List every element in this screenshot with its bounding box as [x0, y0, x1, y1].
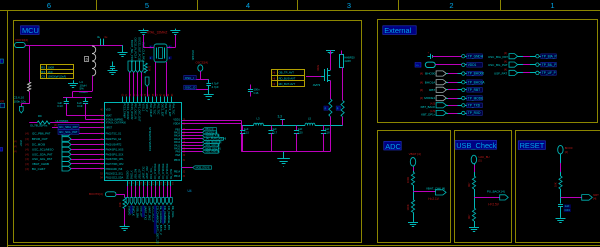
- svg-text:[4]: [4]: [420, 96, 423, 100]
- wire junction to label: [413, 191, 436, 193]
- wire junction to label: [561, 197, 582, 199]
- capacitor C15: [242, 126, 244, 131]
- svg-text:PB11/I2C2_SDA: PB11/I2C2_SDA: [106, 177, 124, 180]
- svg-text:USF_PAT: USF_PAT: [494, 72, 507, 76]
- wire bottom pin 6: [147, 186, 149, 198]
- svg-text:SWCLK: SWCLK: [130, 170, 133, 179]
- svg-text:10M: 10M: [148, 66, 151, 71]
- wire right pin row 7: [182, 148, 203, 150]
- pin bottom 8 stub: [155, 181, 157, 186]
- resistor R21: [411, 172, 414, 185]
- left edge clip mark b: [0, 148, 3, 152]
- net label boxes row2: [58, 129, 79, 134]
- hier pin down VDDIO: [145, 77, 149, 86]
- net name SWCLK: [130, 205, 133, 213]
- svg-text:3: 3: [347, 1, 351, 10]
- svg-text:10K: 10K: [118, 202, 122, 207]
- sheet frame top border: [0, 10, 600, 12]
- svg-text:[4]: [4]: [565, 150, 568, 154]
- svg-text:3u: 3u: [104, 35, 108, 39]
- svg-text:VDD33[4]: VDD33[4]: [15, 38, 28, 42]
- svg-text:U4: U4: [188, 189, 192, 193]
- ic U4 STM32 body: [105, 103, 182, 181]
- svg-text:BPUR_OUT: BPUR_OUT: [32, 137, 48, 141]
- inductor L3: [254, 123, 264, 125]
- svg-text:RBT: RBT: [429, 88, 435, 92]
- svg-text:PA1_TSC: PA1_TSC: [153, 104, 156, 115]
- svg-text:100K: 100K: [406, 177, 410, 183]
- svg-text:C15: C15: [244, 130, 249, 134]
- wire UAK down: [474, 164, 476, 176]
- hier pin down BOOT_SEL_PIN02: [128, 61, 132, 73]
- sheet name RESET: [518, 141, 545, 150]
- sheet name MCU: [21, 26, 40, 35]
- svg-text:STM32F072CBT6: STM32F072CBT6: [148, 127, 152, 152]
- wire right pin row 3: [182, 135, 203, 137]
- pin bottom 11 stub: [167, 181, 169, 186]
- capacitor C17: [271, 126, 273, 131]
- svg-text:VBAT [4]: VBAT [4]: [409, 152, 421, 156]
- power flag Q1: [326, 50, 335, 52]
- net label OSC_O: [184, 85, 196, 89]
- pin top 11 stub: [160, 97, 162, 103]
- test point TP_MODE: [462, 96, 465, 99]
- left edge clip mark a: [0, 59, 3, 63]
- svg-text:USB_DM: USB_DM: [136, 206, 140, 218]
- svg-text:H=2.1V: H=2.1V: [428, 197, 440, 201]
- svg-text:TP_BIA_P: TP_BIA_P: [542, 54, 557, 58]
- svg-text:[4]: [4]: [14, 151, 17, 153]
- ground crystal right: [175, 29, 177, 31]
- pin bottom 1 stub: [127, 181, 129, 186]
- svg-text:USC_SDA_PAT: USC_SDA_PAT: [32, 152, 53, 156]
- svg-text:PA3_TSC: PA3_TSC: [164, 104, 167, 115]
- hier pin down CD_CHARGE_BAT1_DET_22: [154, 198, 157, 205]
- svg-text:OSC32[4]: OSC32[4]: [196, 61, 209, 65]
- svg-text:USC_ADL_PAT: USC_ADL_PAT: [32, 157, 52, 161]
- wire R14 to filter: [330, 117, 332, 126]
- svg-text:4K7: 4K7: [467, 214, 471, 219]
- wire VDD1: [435, 64, 461, 66]
- svg-text:XTALN_OUT/PA00: XTALN_OUT/PA00: [106, 122, 127, 125]
- wire TP_BHO1A: [446, 82, 461, 84]
- test point TP_GNDH: [462, 55, 465, 58]
- ferrite PD: [64, 126, 72, 130]
- capacitor C18: [323, 126, 325, 131]
- svg-text:USC_BIA_PAT: USC_BIA_PAT: [488, 55, 508, 59]
- hier label NRT: [582, 195, 593, 201]
- wire C19 down: [85, 103, 87, 119]
- test point VDD1: [462, 63, 465, 66]
- wire bottom pin 9: [159, 186, 161, 198]
- ground crystal left: [143, 29, 145, 31]
- svg-text:TP_BIL_P: TP_BIL_P: [542, 63, 557, 67]
- svg-text:I2C1_SCL_: I2C1_SCL_: [150, 166, 153, 180]
- crystal Y1: [154, 44, 167, 62]
- svg-text:PC13_TAMP: PC13_TAMP: [122, 104, 125, 119]
- wire TP_RBT: [446, 89, 461, 91]
- svg-text:C17: C17: [272, 130, 277, 134]
- hier pin down DE_CHARGE_BAT0_2: [158, 198, 161, 205]
- wire R26 to ground: [474, 221, 476, 227]
- wire right pin row 2: [182, 132, 203, 134]
- pin top 10 stub: [156, 97, 158, 103]
- wire R15 to filter: [342, 117, 344, 126]
- svg-text:5: 5: [145, 1, 149, 10]
- svg-text:VBAT: VBAT: [106, 115, 113, 118]
- svg-text:PA8: PA8: [175, 154, 180, 157]
- hier pin down CD_CHARGE_BT1: [162, 198, 165, 205]
- hier pin down OSC32_OUT_PC15: [136, 61, 140, 73]
- wire OSC_IN: [155, 62, 157, 97]
- wire C24 to ground: [560, 207, 562, 218]
- svg-text:[4]: [4]: [272, 71, 275, 75]
- pin bottom 10 stub: [163, 181, 165, 186]
- svg-text:CD_CHARGE: CD_CHARGE: [166, 163, 169, 179]
- sheet frame bottom border: [8, 245, 600, 247]
- capacitor C11: [208, 80, 210, 83]
- svg-text:USC_BIL_PAT: USC_BIL_PAT: [488, 63, 508, 67]
- wire bottom pin 3: [135, 186, 137, 198]
- net name CD_CHARGE_BT1: [162, 205, 165, 223]
- svg-text:4HP2: 4HP2: [344, 59, 351, 63]
- svg-text:PA05/SPI1_SCK: PA05/SPI1_SCK: [106, 153, 124, 156]
- hier label GB1_GN3 [4]: [203, 144, 219, 147]
- wire TP_BHO00: [446, 73, 461, 75]
- svg-text:[4]: [4]: [26, 167, 29, 171]
- svg-text:VDD_2: VDD_2: [145, 104, 148, 113]
- wire TP_UF_P: [518, 72, 536, 74]
- svg-text:CD_CHARGE_BT1: CD_CHARGE_BT1: [163, 206, 167, 231]
- wire TP_MODE: [446, 98, 461, 100]
- net name CD_CHARGE_BAT1_DET_22: [154, 205, 157, 233]
- svg-text:PA02/TSC_G2: PA02/TSC_G2: [106, 138, 122, 141]
- svg-text:TP_GNDH: TP_GNDH: [468, 54, 484, 58]
- svg-text:L5: L5: [308, 116, 311, 120]
- svg-text:C13: C13: [57, 104, 63, 108]
- wire osc b: [186, 89, 208, 91]
- svg-text:DC_MOSI: DC_MOSI: [32, 143, 45, 147]
- table notes T1: [41, 65, 74, 79]
- svg-text:4.7pF: 4.7pF: [212, 85, 219, 89]
- svg-text:OSC2_EXT: OSC2_EXT: [168, 104, 171, 118]
- svg-text:CD_CHARGE: CD_CHARGE: [154, 163, 157, 179]
- svg-text:OSC32_OUT_PC15: OSC32_OUT_PC15: [138, 37, 142, 61]
- svg-text:100R: 100R: [48, 66, 55, 70]
- hier pin down I2C1_SCL_X: [150, 198, 153, 205]
- net name UART_TX2: [142, 205, 145, 217]
- svg-text:OSC32_IN_PC14: OSC32_IN_PC14: [134, 38, 138, 59]
- pin bottom 9 stub: [159, 181, 161, 186]
- wire row A: [66, 115, 104, 117]
- svg-text:GL78L05Pxx: GL78L05Pxx: [30, 124, 48, 128]
- wire bottom pin 11: [167, 186, 169, 198]
- wire row B: [86, 119, 105, 121]
- pin top 8 stub: [148, 97, 150, 103]
- wire OSC32_OUT_PC15 to U4: [137, 73, 139, 97]
- svg-text:PF1_OSC_OUT: PF1_OSC_OUT: [138, 104, 141, 123]
- pin top 1 stub: [122, 97, 124, 103]
- resistor R8 on rail branch: [28, 82, 31, 91]
- wire right pin row 5: [182, 142, 203, 144]
- svg-text:OSC1_EXT: OSC1_EXT: [160, 104, 163, 118]
- wire USC_SDA_PAT to U4: [71, 154, 104, 156]
- test point TP_BHO1A: [462, 81, 465, 84]
- frame column tick x=297: [297, 0, 299, 10]
- svg-text:VDD1: VDD1: [173, 119, 180, 122]
- svg-text:10K: 10K: [554, 182, 558, 187]
- ground osc: [208, 90, 210, 94]
- svg-text:VBAT_CHKB: VBAT_CHKB: [32, 162, 49, 166]
- svg-text:PC15_OSC32: PC15_OSC32: [130, 104, 133, 120]
- hier label GB1_GN5 [4]: [203, 150, 219, 153]
- svg-text:PA2_TSC: PA2_TSC: [157, 104, 160, 115]
- wire bottom pin 2: [131, 186, 133, 198]
- frame column tick x=197: [197, 0, 199, 10]
- svg-text:KBT_BACK: KBT_BACK: [421, 105, 436, 109]
- capacitor C3 series on rail: [100, 39, 102, 46]
- svg-text:x[4]: x[4]: [0, 100, 4, 103]
- svg-text:TP_MODE: TP_MODE: [468, 96, 483, 100]
- svg-text:External: External: [384, 26, 411, 35]
- wire USC_ADL_PAT to U4: [71, 159, 104, 161]
- svg-text:MGB_GN [4]: MGB_GN [4]: [196, 166, 210, 169]
- svg-text:RD_BUS-AVT: RD_BUS-AVT: [279, 76, 296, 80]
- svg-text:PB00/ADC_IN8: PB00/ADC_IN8: [106, 168, 123, 171]
- hier pin down SWCLK: [130, 198, 133, 205]
- svg-text:C24: C24: [565, 208, 571, 212]
- wire OSC_OUT: [166, 62, 168, 97]
- svg-text:TP_RXD: TP_RXD: [468, 111, 481, 115]
- test point TP_BIL_P: [536, 63, 539, 66]
- resistor R28: [559, 176, 562, 189]
- net label boxes row1: [58, 124, 79, 129]
- svg-text:BHO00: BHO00: [425, 72, 435, 76]
- sheet box MCU: [14, 21, 362, 243]
- ground RESET: [560, 217, 562, 220]
- svg-text:USB_Check: USB_Check: [456, 141, 497, 150]
- capacitor C13: [66, 98, 68, 101]
- svg-text:SWDIO: SWDIO: [127, 171, 130, 180]
- svg-text:USB_DM: USB_DM: [134, 169, 137, 179]
- wire osc a: [186, 79, 208, 81]
- svg-text:100K: 100K: [406, 204, 410, 210]
- hier pin down OSC32_IN_PC14: [132, 61, 136, 73]
- wire OSC32_IN_PC14 to U4: [133, 73, 135, 97]
- svg-text:4K7: 4K7: [467, 182, 471, 187]
- hier pin down SWD_CLK_PA14: [139, 61, 143, 73]
- hier label SHYBB_A [4]: [203, 134, 219, 137]
- hier label BB1 [4]: [203, 128, 217, 131]
- svg-text:PA4_TSC: PA4_TSC: [172, 104, 175, 115]
- capacitor C16: [250, 85, 252, 90]
- svg-text:BU_CHK7: BU_CHK7: [32, 167, 46, 171]
- svg-text:[4]: [4]: [26, 143, 29, 147]
- svg-text:PA04/SPI1_NSS: PA04/SPI1_NSS: [106, 149, 124, 152]
- wire right pin row 8: [182, 151, 203, 153]
- svg-text:100n,10u: 100n,10u: [14, 99, 27, 103]
- wire OSC32 down: [200, 71, 202, 79]
- hier pin down UART_TX2: [142, 198, 145, 205]
- wire R21 to junction: [413, 185, 415, 200]
- svg-text:C9: C9: [41, 75, 45, 79]
- pin top 13 stub: [167, 97, 169, 103]
- wire DC_MOSI to U4: [71, 144, 104, 146]
- svg-text:I2C_SDA_PAT: I2C_SDA_PAT: [59, 125, 78, 129]
- sheet frame left border: [7, 10, 9, 247]
- hier label JAY_PURCLKB1[4]: [203, 137, 224, 140]
- wire BOOT0: [116, 194, 125, 196]
- wire junction to label: [474, 197, 500, 199]
- pin top 14 stub: [171, 97, 173, 103]
- svg-text:[5]: [5]: [478, 159, 481, 163]
- test point TP_UF_P: [536, 71, 539, 74]
- svg-text:[4]: [4]: [26, 137, 29, 141]
- ground USB_Check: [474, 226, 476, 229]
- svg-text:C20: C20: [298, 130, 303, 134]
- svg-text:UART_RX2: UART_RX2: [146, 166, 149, 180]
- wire VBAT_CHKB to U4: [71, 163, 104, 165]
- wire bottom pin 5: [143, 186, 145, 198]
- capacitor C19: [85, 98, 87, 101]
- svg-text:OB_TP_AVT: OB_TP_AVT: [279, 71, 295, 75]
- svg-text:L3: L3: [257, 116, 260, 120]
- svg-text:VDD1: VDD1: [468, 63, 477, 67]
- pin bottom 3 stub: [135, 181, 137, 186]
- svg-text:BOOT0[4]: BOOT0[4]: [89, 192, 103, 196]
- hier label MGB_GN1 [4]: [203, 147, 219, 150]
- wire filter right wires from U4: [182, 120, 242, 122]
- svg-text:5096: 5096: [316, 65, 320, 71]
- svg-text:C19: C19: [77, 104, 83, 108]
- svg-text:100n: 100n: [254, 87, 260, 91]
- svg-text:HHBR20: HHBR20: [344, 56, 355, 60]
- wire R28 to junction: [560, 189, 562, 204]
- test point TP_BIA_P: [536, 55, 539, 58]
- pin bottom 7 stub: [151, 181, 153, 186]
- wire BOO0 down: [560, 154, 562, 176]
- svg-text:PA01/TSC_G1: PA01/TSC_G1: [106, 133, 122, 136]
- frame column tick x=500: [500, 0, 502, 10]
- svg-text:[4]: [4]: [26, 157, 29, 161]
- svg-text:VDD: VDD: [106, 109, 111, 112]
- svg-text:[4]: [4]: [420, 80, 423, 84]
- svg-text:UL7805PA: UL7805PA: [56, 119, 69, 123]
- wire bottom pin 12: [170, 186, 172, 198]
- wire C13 down: [66, 103, 68, 115]
- wire bottom pin 7: [151, 186, 153, 198]
- ground C6: [112, 69, 114, 71]
- sheet box RESET: [516, 131, 600, 243]
- test point TP_RXD: [462, 111, 465, 114]
- svg-text:[4]: [4]: [14, 141, 17, 143]
- pin bottom 12 stub: [170, 181, 172, 186]
- svg-text:1uF: 1uF: [325, 127, 330, 131]
- svg-text:VOUT: VOUT: [19, 140, 21, 147]
- wire R22 to ground: [413, 212, 415, 222]
- wire TP_RXD: [446, 113, 461, 115]
- svg-text:TP_BHO00: TP_BHO00: [468, 72, 485, 76]
- svg-text:VSS_1: VSS_1: [141, 104, 144, 112]
- svg-text:PB13: PB13: [174, 175, 181, 178]
- pin top 2 stub: [126, 97, 128, 103]
- svg-text:R9: R9: [38, 114, 42, 118]
- svg-text:OSC_O: OSC_O: [185, 86, 196, 90]
- svg-text:NRST: NRST: [106, 127, 113, 130]
- svg-text:UART_TX2: UART_TX2: [142, 166, 145, 179]
- wire caps rail: [63, 97, 92, 99]
- wire BOOT_SEL_PIN02 to U4: [129, 73, 131, 97]
- svg-text:UART_RX2: UART_RX2: [147, 206, 151, 221]
- pin top 7 stub: [145, 97, 147, 103]
- sheet box External: [378, 20, 598, 123]
- inductor L4: [92, 46, 96, 76]
- wire right pin row 1: [182, 129, 203, 131]
- svg-text:CD_CHARGE: CD_CHARGE: [162, 163, 165, 179]
- svg-text:USB_DP: USB_DP: [138, 169, 141, 179]
- svg-text:PA06/TIM3_CH1: PA06/TIM3_CH1: [106, 158, 125, 161]
- wire bottom pin 10: [163, 186, 165, 198]
- svg-text:RD_BUT-AVT: RD_BUT-AVT: [279, 82, 296, 86]
- resistor R12: [144, 63, 147, 73]
- svg-text:[4]: [4]: [26, 152, 29, 156]
- inductor L5: [305, 123, 315, 125]
- svg-text:PA0_WKUP: PA0_WKUP: [149, 104, 152, 118]
- power pin USB_5.0V: [415, 63, 421, 68]
- resistor R25: [472, 176, 475, 189]
- frame column tick x=96: [96, 0, 98, 10]
- svg-text:USC_SCL/MISO: USC_SCL/MISO: [32, 148, 54, 152]
- svg-text:PF0_OSC_IN: PF0_OSC_IN: [134, 104, 137, 119]
- svg-text:MODE1: MODE1: [424, 96, 435, 100]
- svg-text:[4]: [4]: [420, 72, 423, 76]
- wire USC_SCL/MISO to U4: [71, 149, 104, 151]
- hier pin down PWR: [19, 107, 23, 114]
- wire filter left drop: [241, 121, 243, 152]
- svg-text:TP_RBT: TP_RBT: [468, 88, 480, 92]
- wire crystal case left to ground: [144, 47, 155, 49]
- wire Q1 down: [330, 81, 332, 100]
- svg-text:[4]: [4]: [26, 162, 29, 166]
- wire MGB_GN row: [182, 167, 193, 169]
- no-connect flag D on L4: [85, 57, 89, 62]
- wire SWD_CLK_PA14 to U4: [141, 73, 143, 97]
- resistor R26: [472, 208, 475, 221]
- wire bottom pin 4: [139, 186, 141, 198]
- hier pin down USB_DP: [138, 198, 141, 205]
- wire bottom pin 8: [155, 186, 157, 198]
- hier pin down UART_RX2: [146, 198, 149, 205]
- wire row D with PD box: [52, 127, 104, 129]
- svg-text:TP_BHO1A: TP_BHO1A: [468, 80, 486, 84]
- svg-text:BHO1A: BHO1A: [425, 80, 436, 84]
- svg-text:4: 4: [246, 1, 250, 10]
- svg-text:[4]: [4]: [26, 132, 29, 136]
- capacitor C20: [296, 126, 298, 131]
- hier label GB1_BACK [4]: [203, 140, 220, 143]
- svg-text:H=2.5V: H=2.5V: [488, 202, 500, 206]
- wire bottom pin 1: [127, 186, 129, 198]
- pin top 9 stub: [152, 97, 154, 103]
- wire R16 to ground: [124, 209, 126, 225]
- table notes T2: [272, 70, 305, 87]
- sheet box ADC: [378, 131, 451, 243]
- wire TP_BIL_P: [518, 64, 536, 66]
- svg-text:CD_CHARGE_BAT1_DET_22: CD_CHARGE_BAT1_DET_22: [155, 206, 159, 244]
- resistor R16: [123, 198, 126, 209]
- sheet name ADC: [384, 141, 401, 150]
- svg-text:AVP3: AVP3: [313, 83, 321, 87]
